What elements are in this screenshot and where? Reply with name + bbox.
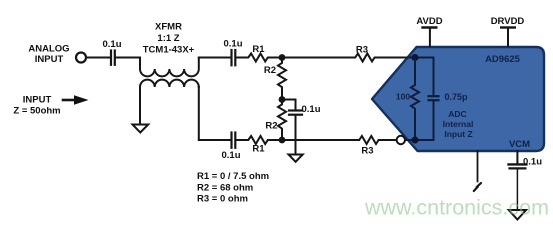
pin VCM wire [516,151,518,163]
svg-text:0.1u: 0.1u [221,150,240,161]
svg-text:Input Z: Input Z [444,129,472,139]
svg-text:R2: R2 [265,121,277,132]
input terminal J1 [76,53,86,63]
op-amp U1 AD9625 body [372,47,544,151]
wire secondary right to C4 (bottom rail) [199,87,230,140]
wire node A run to R3 (top rail) [352,57,354,59]
svg-text:R1: R1 [252,44,265,55]
svg-text:0.1u: 0.1u [523,157,542,168]
svg-text:INPUT: INPUT [35,54,64,65]
wire C3 to ground (crosses bottom rail) [295,116,297,154]
capacitor C4 0.1u (bottom) [221,133,240,162]
capacitor C1 0.1u [102,39,121,65]
svg-text:R3: R3 [356,45,368,56]
wire VIN- inside stub [404,139,434,141]
resistor R3 (bottom) [357,136,381,157]
svg-text:XFMR: XFMR [155,22,182,33]
svg-text:R1: R1 [252,144,265,155]
ground (center tap) [289,155,303,162]
wire primary out to C2 [199,57,230,59]
node VIN+ (dot) [412,54,419,61]
svg-text:VCM: VCM [509,139,530,150]
svg-text:Internal: Internal [443,119,474,129]
svg-text:100: 100 [396,92,410,102]
wire node A to R3 top [282,57,353,59]
label ANALOG INPUT [28,44,69,66]
wire R3 to ADC VIN- [381,139,400,141]
resistor R2 (top) [264,61,286,96]
arrow (input direction) [63,95,89,104]
svg-text:1:1 Z: 1:1 Z [157,33,179,44]
svg-text:AD9625: AD9625 [485,54,521,65]
svg-text:DRVDD: DRVDD [491,16,525,27]
capacitor C5 0.1u (VCM) [509,157,543,169]
power AVDD [416,16,442,46]
svg-text:ADC: ADC [448,109,466,119]
svg-text:AVDD: AVDD [416,16,442,27]
wire R1 to node C and on to R3 bottom [270,139,357,141]
wire VIN+ inside stub [405,57,434,59]
capacitor C2 0.1u (top) [223,39,242,66]
wire C4 to R1 bottom [237,139,247,141]
capacitor C3 0.1u (center tap) [289,104,321,115]
resistor R1 (top) [246,44,270,62]
svg-text:TCM1-43X+: TCM1-43X+ [143,45,195,56]
node C (bottom R2 junction) [279,137,286,144]
svg-text:R2 = 68 ohm: R2 = 68 ohm [197,182,253,193]
resistor R3 (top) [353,45,377,62]
label ADC Internal Input Z [443,109,474,139]
pin stub (unconnected, with break mark) [474,151,481,191]
label INPUT Z = 50ohm [13,95,60,117]
power DRVDD [491,16,525,46]
svg-text:R3: R3 [361,146,373,157]
node internal bottom (dot) [412,137,419,144]
annotation resistor values [197,171,269,204]
transformer T1 XFMR 1:1 Z TCM1-43X+ [140,22,199,88]
wire secondary left to ground [139,87,141,124]
wire center tap to C3 [282,100,296,110]
ground (transformer) [133,125,149,133]
svg-text:www.cntronics.com: www.cntronics.com [364,196,549,220]
svg-text:0.1u: 0.1u [302,104,321,115]
node A (top R2 junction) [279,54,286,61]
wire R3 to ADC VIN+ [377,57,416,59]
svg-text:Z = 50ohm: Z = 50ohm [13,106,60,117]
wire R1 to node A [270,57,282,59]
svg-text:R3 = 0 ohm: R3 = 0 ohm [197,193,248,204]
wire input to C1 [87,57,111,59]
resistor R1 (bottom) [246,136,270,155]
wire C1 to transformer [116,57,140,59]
wire C2 to R1 [237,57,247,59]
svg-text:0.1u: 0.1u [102,39,121,50]
svg-text:ANALOG: ANALOG [28,44,69,55]
svg-text:R1 = 0 / 7.5 ohm: R1 = 0 / 7.5 ohm [197,171,269,182]
svg-text:0.1u: 0.1u [223,39,242,50]
node VIN- (open circle) [397,136,405,144]
svg-text:0.75p: 0.75p [445,92,469,102]
resistor R2 (bottom) [265,100,286,137]
node B (center tap) [279,96,286,103]
ground (VCM) [509,210,526,220]
wire C5 to ground [516,170,518,210]
svg-text:INPUT: INPUT [23,95,52,106]
svg-text:R2: R2 [264,65,276,76]
capacitor internal 0.75p [429,58,469,141]
resistor internal 100 ohm [396,58,419,141]
